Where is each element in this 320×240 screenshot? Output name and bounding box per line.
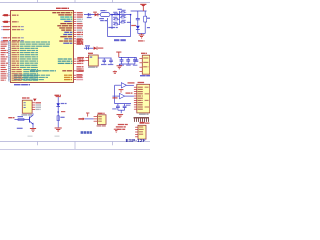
svg-text:ESP-12F: ESP-12F xyxy=(126,138,146,143)
